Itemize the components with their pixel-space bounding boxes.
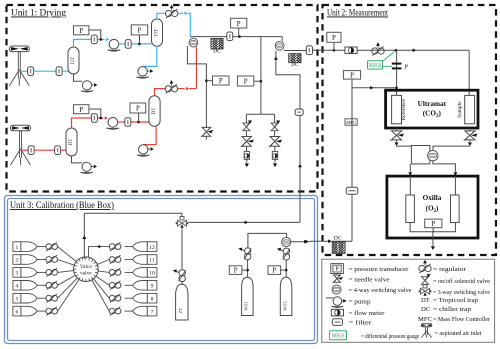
svg-text:= 3-way switching valve: = 3-way switching valve [433,289,490,296]
wire P box WT2 link [281,269,287,271]
svg-text:P: P [431,221,435,228]
wire into unit 2 [313,49,335,51]
wire P box 7 link [254,80,261,82]
wire [125,246,133,248]
gas cylinder 9 [133,281,157,291]
svg-text:= pressure transducer: = pressure transducer [349,266,410,273]
wire red corner [189,88,196,90]
wires into Oxilla cells [410,176,455,195]
Unit 1 dashed border [7,5,318,192]
regulator cylinder 11 [109,255,121,264]
legend on/off solenoid valve symbol [422,274,431,284]
needle valve NV3 [390,131,404,141]
filter F4 [125,40,131,49]
wire crossover out right [433,161,458,176]
svg-text:= Mass Flow Controller: = Mass Flow Controller [433,316,491,323]
legend text regulator [433,266,467,273]
legend text filter [349,320,373,327]
wire red regulator R2 out arrow [178,87,190,91]
wire red F7 to pump arrow [97,116,108,120]
pump 5 outlet arrow [148,147,154,151]
flow meter FM2 [272,151,277,159]
wire [37,284,46,286]
pressure transducer P box WT2 [268,266,281,275]
wire [125,284,133,286]
wire [181,282,183,284]
svg-text:12: 12 [149,245,155,251]
regulator cylinder 4 [46,281,58,290]
filter F10 [306,46,312,55]
wire P box 5 stub [138,113,140,122]
wire Valco valve up [82,213,86,258]
wire P box 2 stub [139,35,141,44]
Unit 2 dashed border [323,5,497,255]
legend filter symbol [332,319,342,326]
legend text chiller trap [433,306,472,313]
svg-text:DT: DT [421,297,430,304]
wire blue pump1 to filter F4 [119,43,125,45]
wire crossover out left [408,164,412,176]
svg-text:10: 10 [149,271,155,277]
wire valve VB out to unit 2 [291,240,310,244]
svg-text:MFC: MFC [346,120,356,125]
pressure transducer P box 5 [130,103,146,113]
regulator WT2 [277,248,290,260]
filter F3 [91,35,97,44]
regulator ZT [173,269,186,281]
wire red F6 to DT3 [61,149,66,151]
wire P box 8 stub [333,43,336,52]
svg-text:6: 6 [16,309,19,315]
wire regulator WT2 to tank [285,260,288,277]
svg-text:4: 4 [16,284,19,290]
wire unit2 main line [334,48,469,52]
wire blue mast1 to filter [20,70,27,72]
svg-text:= differential pressure gauge: = differential pressure gauge [361,333,419,340]
svg-text:DT: DT [70,56,76,64]
gas cylinder 3 [13,268,37,278]
wire [125,310,133,312]
arrow down [468,140,472,146]
wire [245,131,247,137]
wire P box 1 to line junction [89,30,102,41]
wire ref path to crossover box [397,145,412,147]
flow meter FM1 [244,151,249,159]
wire [274,131,276,137]
svg-text:= on/off solenoid valve: = on/off solenoid valve [433,278,490,285]
gas cylinder 4 [13,281,37,291]
svg-text:Ultramat: Ultramat [418,100,447,108]
legend text pump [349,299,372,306]
regulator cylinder 10 [109,268,121,277]
svg-text:5: 5 [16,296,19,302]
legend pressure transducer symbol [331,264,344,274]
wire cylinder 7 to Valco valve [92,280,109,311]
svg-text:P: P [405,64,409,71]
wire [125,271,133,273]
svg-text:P: P [79,107,83,114]
svg-text:P: P [219,78,223,85]
wire valve V2 to filter [284,50,306,52]
wire [37,271,46,273]
svg-text:= regulator: = regulator [433,266,467,273]
legend text on/off solenoid valve [433,278,490,285]
wire cylinder 4 to Valco valve [58,275,76,285]
chiller trap DC3 [332,235,345,253]
DT column DT1 [68,47,79,74]
regulator cylinder 2 [46,255,58,264]
svg-text:= aspirated air inlet: = aspirated air inlet [435,330,482,337]
wire P box WT1 link [242,269,248,271]
filter F8 [125,118,131,127]
wire P box 6 stub [238,28,241,38]
legend flow meter symbol [331,309,343,316]
wire down to valve V2 [281,37,283,42]
MKS differential pressure gauge [368,61,383,69]
on-off solenoid valve SV2 [271,121,280,131]
pump 1 [108,39,121,51]
wire blue F4 to DT2 with junction [131,43,151,46]
svg-text:valve: valve [80,271,92,277]
pressure transducer P box 9 [343,71,360,80]
wire P box 9 stub [351,79,353,88]
pressure transducer P box 8 [327,32,341,42]
svg-text:DT: DT [68,138,74,146]
pressure transducer P box 1 [74,26,89,35]
wire blue DT1 top [74,39,92,47]
svg-text:P: P [332,35,336,42]
svg-text:WT1: WT1 [244,301,249,311]
wire red pump4 to filter F8 [118,121,125,123]
legend MKS symbol [330,331,347,340]
wire blue down to 4-way valve V1 [188,13,191,37]
svg-text:2: 2 [16,258,19,264]
needle valve NV0 tail [205,136,207,139]
pressure transducer P box 3 [213,76,230,85]
pump 4 [106,118,119,130]
wire P box 4 to line [89,109,102,119]
gas cylinder 2 [13,255,37,265]
pressure transducer P box 10 [425,219,442,228]
DT column DT2 [152,19,163,46]
pressure transducer P box WT1 [229,266,242,275]
arrow down [395,140,399,146]
svg-text:Unit 2: Measurement: Unit 2: Measurement [327,8,388,18]
wire cylinder 11 to Valco valve [97,260,109,265]
legend DC [421,306,431,313]
4-way switching valve VB [282,237,291,246]
filter F5 [28,146,34,155]
svg-text:DC: DC [291,62,299,68]
gas cylinder 5 [13,293,37,303]
legend 3-way switching valve symbol [419,285,431,296]
wire calibration gas riser [274,51,302,222]
svg-text:P: P [136,106,140,113]
wire [125,259,133,261]
wire blue DT2 top to regulator [157,13,166,19]
legend needle valve symbol [333,275,343,283]
regulator R1 [165,5,177,18]
legend text flow meter [349,310,386,317]
wire sample path to crossover valve [433,146,470,150]
tank ZT [176,284,188,320]
svg-text:P: P [138,28,142,35]
Mass Flow Controller MFC [345,119,357,125]
filter F1 [28,67,34,76]
4-way switching valve V1 [189,38,198,47]
filter F6 [55,146,61,155]
Unit 1 title [11,8,67,18]
legend aspirated air inlet symbol [421,324,431,338]
wire DT3 bottom to pump 6 [72,156,82,163]
svg-text:ZT: ZT [178,308,183,314]
filter F12 [346,187,358,194]
pump 6 outlet arrow [91,165,97,169]
pressure transducer P box 2 [131,25,147,35]
filter F9 [227,32,233,41]
wire DT1 bottom to pump 3 [74,74,83,81]
Unit 2 title [327,8,388,18]
regulator cylinder 12 [109,242,121,251]
legend MFC [418,316,433,323]
needle valve NV0 [201,127,213,137]
wire blue F2 to DT1 [62,70,68,72]
wire reference line down [395,50,398,95]
svg-text:Unit 1: Drying: Unit 1: Drying [11,8,67,18]
legend text Tropicool trap [433,297,479,304]
wire main sample line [190,36,282,38]
wire valve VA down to ZT regulator [181,228,183,269]
gas cylinder 10 [133,268,157,278]
wire cylinder 10 to Valco valve [98,271,109,273]
svg-text:Valco: Valco [80,264,92,270]
gas cylinder 6 [13,306,37,316]
regulator cylinder 1 [46,242,58,251]
Unit 3 title [10,200,114,210]
wire green MKS links [383,52,395,67]
wire cylinder 12 to Valco valve [89,245,110,258]
regulator WT1 [238,248,251,260]
chiller trap DC2 [289,54,301,69]
svg-text:DT: DT [154,28,160,36]
svg-text:MFC: MFC [418,316,433,323]
svg-text:= flow meter: = flow meter [349,310,386,317]
3-way switching valve VA [176,217,188,228]
exhaust arrow [273,159,277,167]
wire [37,297,46,299]
needle valve NV2 [269,136,282,147]
svg-text:1: 1 [16,245,19,251]
regulator R3 [372,42,384,55]
wire [125,297,133,299]
legend box [322,259,495,342]
wire red DT4 top to regulator R2 [155,89,166,96]
pump 3 [81,81,93,92]
pump 3 outlet arrow [92,83,98,87]
svg-text:P: P [79,28,83,35]
gas cylinder 12 [133,242,157,252]
svg-text:DC: DC [421,306,431,313]
wire red DT4 bottom to pump 5 [143,126,156,144]
wire [274,146,276,151]
svg-text:= filter: = filter [349,320,373,327]
wire [246,146,248,151]
wire blue F3 to pump P-1 with arrow [97,38,109,42]
wire [37,310,46,312]
wire Oxilla cell bottoms [410,223,455,232]
tank WT2 [280,277,292,315]
wire cylinder 2 to Valco valve [58,260,75,266]
legend text pressure transducer [349,266,410,273]
svg-text:DC: DC [213,49,221,55]
svg-text:DT: DT [151,107,157,115]
legend text 3-way switching valve [433,289,490,296]
svg-text:= pump: = pump [349,299,372,306]
svg-text:WT2: WT2 [282,301,287,311]
regulator cylinder 3 [46,268,58,277]
svg-text:Reference: Reference [400,98,407,120]
regulator cylinder 5 [46,294,58,303]
wire red F8 to DT4 [131,121,149,124]
legend text aspirated air inlet [435,330,482,337]
Valco multiport valve [74,257,99,282]
wire cylinder 8 to Valco valve [94,279,110,298]
wire from unit3 to DC3 [305,239,352,243]
filter F2 [56,67,62,76]
svg-text:Unit 3: Calibration (Blue Box): Unit 3: Calibration (Blue Box) [10,200,114,210]
wire red F5 to F6 [34,149,54,151]
Oxilla O2 analyzer box [387,176,478,238]
tank WT1 [242,277,254,315]
legend 4-way switching valve symbol [332,285,341,294]
wire branch feed down [260,37,263,115]
pressure transducer P box 6 [231,18,247,28]
wire red valve V1 to red train [195,47,197,89]
wire cylinder 5 to Valco valve [58,278,78,298]
filter F11 [295,109,303,115]
pump 6 [80,162,92,173]
Unit 3 blue box double border [5,196,318,344]
regulator R2 [165,80,177,93]
svg-text:P: P [272,268,276,275]
pump 2 outlet arrow [147,69,153,73]
DT column DT4 [149,96,160,127]
Ultramat CO2 analyzer box [386,90,478,128]
pressure transducer P box 4 [74,105,89,114]
wire down to Sample cell [468,50,470,95]
wire to 3-way valve VA [84,213,182,217]
regulator cylinder 8 [109,294,121,303]
needle valve NV4 [464,131,478,141]
legend pump symbol [326,297,347,308]
svg-text:11: 11 [149,258,155,264]
wire ref cell out [396,128,398,131]
on-off solenoid valve SV1 [243,121,252,131]
flow meter FM3 [345,47,357,54]
gas cylinder 7 [133,306,157,316]
svg-text:P: P [350,72,354,79]
legend text differential pressure gauge [361,333,419,340]
svg-text:3: 3 [16,271,19,277]
wire blue F1 to F2 [34,70,57,72]
wire to P box 3 [206,80,212,82]
wire MFC column [351,88,353,241]
pump 5 [137,145,150,157]
regulator cylinder 9 [109,281,121,290]
wire cylinder 1 to Valco valve [58,247,77,262]
wire [37,246,46,248]
wire valve VA to riser [189,221,300,225]
aspirated air inlet mast 1 [9,46,29,86]
wire cylinder 3 to Valco valve [58,271,74,273]
legend text Mass Flow Controller [433,316,491,323]
svg-text:MKS: MKS [331,334,344,340]
legend text 4-way switching valve [349,287,412,294]
exhaust arrow [245,159,249,167]
wire [37,259,46,261]
crossover manifold box [411,146,430,164]
gas cylinder 11 [133,255,157,265]
wire blue regulator R1 out arrow [178,11,188,15]
svg-text:P: P [237,21,241,28]
wire regulator WT1 to tank [246,260,249,277]
wire branch header [246,114,274,123]
svg-text:= needle valve: = needle valve [349,276,390,283]
svg-text:8: 8 [151,296,154,302]
pressure transducer P box 7 [237,76,253,86]
filter F7 [91,114,97,123]
legend text needle valve [349,276,390,283]
wire red DT3 top [72,118,92,128]
DT column DT3 [66,128,77,156]
wire MFC line to reference junction [352,86,397,90]
svg-text:Oxilla: Oxilla [423,194,442,202]
chiller trap DC1 [211,38,223,54]
svg-text:9: 9 [151,284,154,290]
svg-text:= chiller trap: = chiller trap [433,306,472,313]
wire blue DT2 bottom to pump 2 [143,46,157,66]
wire sample cell out [469,128,471,131]
svg-text:P: P [234,268,238,275]
wire WT1 top link [248,233,287,247]
svg-text:= 4-way switching valve: = 4-way switching valve [349,287,412,294]
regulator cylinder 6 [46,307,58,316]
wire valve V1 vent loop down [187,46,207,128]
svg-text:P: P [244,79,248,86]
differential pressure sensor [392,63,409,71]
wire P box 10 stub [432,228,434,232]
wire red mast2 to filter [22,149,29,151]
pump 2 [136,67,149,79]
wire cylinder 9 to Valco valve [96,276,109,285]
regulator cylinder 7 [109,307,121,316]
aspirated air inlet mast 2 [11,125,31,165]
legend DT [421,297,430,304]
svg-text:7: 7 [151,309,154,315]
svg-text:= Tropicool trap: = Tropicool trap [433,297,479,304]
wire cylinder 6 to Valco valve [58,279,79,311]
svg-text:MKS: MKS [368,63,381,69]
needle valve NV1 [241,136,254,147]
legend regulator symbol [419,260,431,273]
4-way switching valve V3 [428,150,438,160]
svg-text:Sample: Sample [457,101,463,118]
gas cylinder 1 [13,242,37,252]
Oxilla exhaust arrow [431,232,435,250]
4-way switching valve V2 [275,41,284,50]
gas cylinder 8 [133,293,157,303]
svg-text:DC: DC [334,235,342,241]
